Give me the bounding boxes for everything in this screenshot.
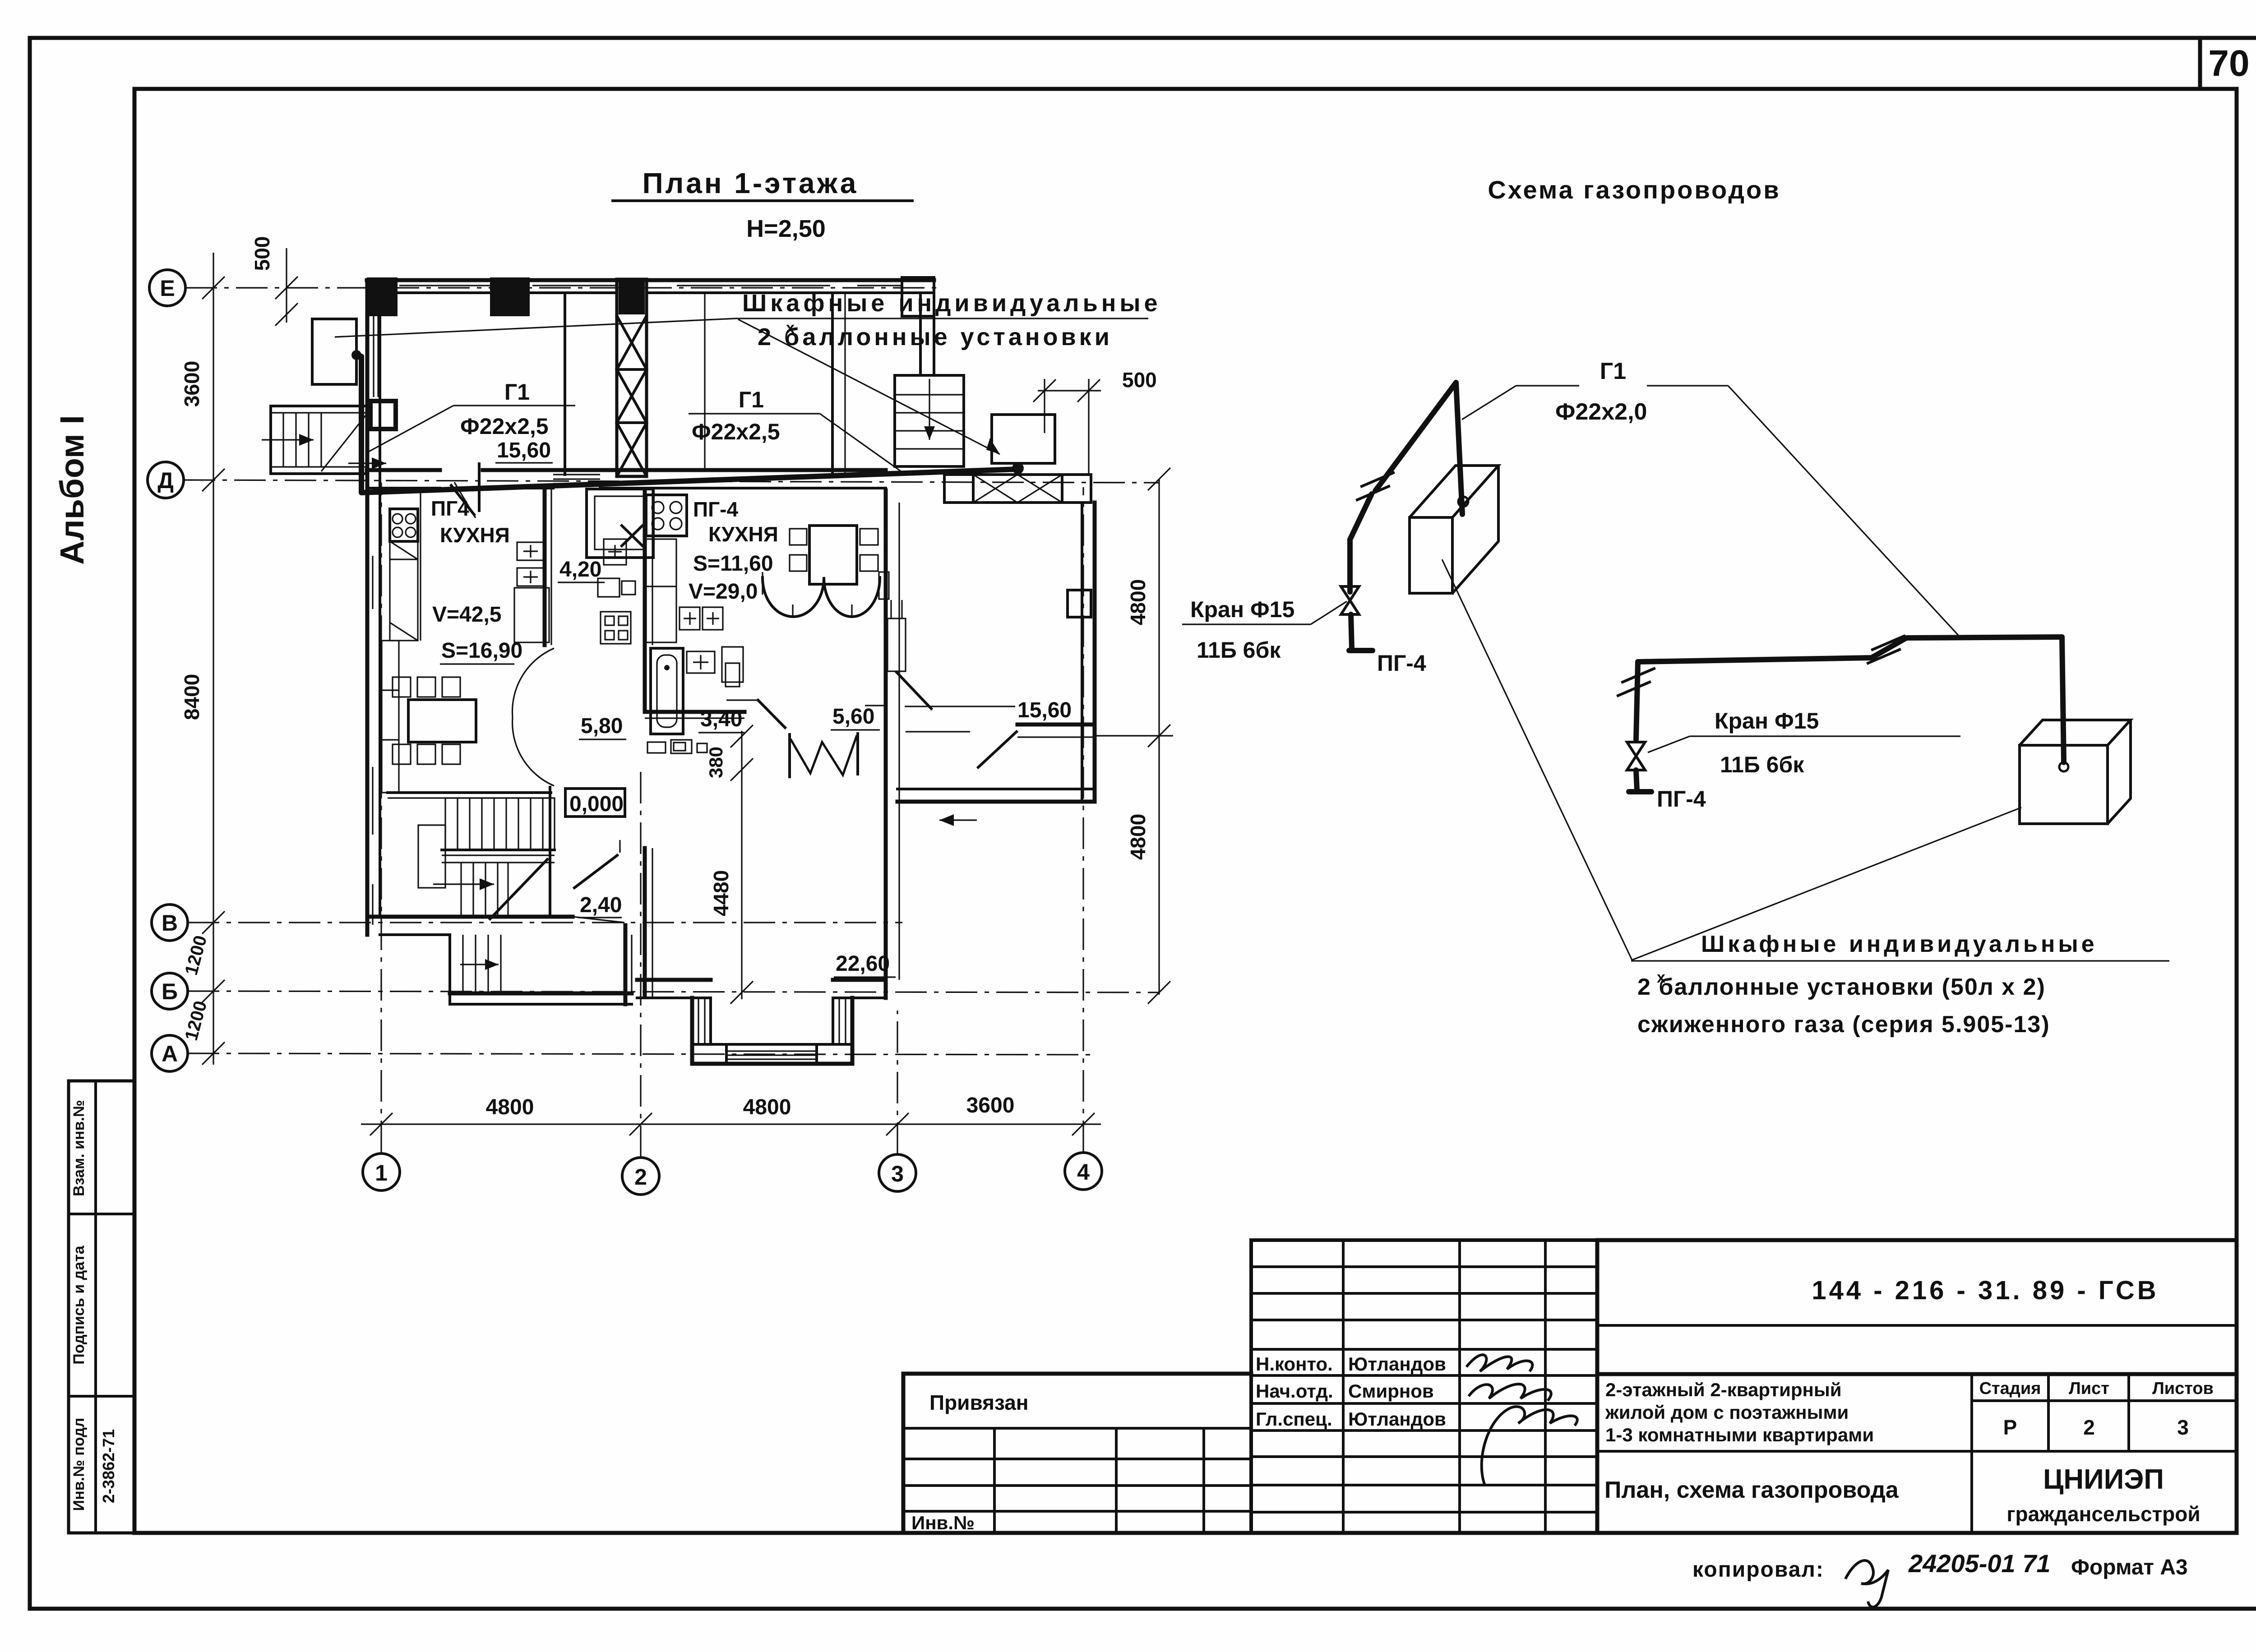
svg-text:граждансельстрой: граждансельстрой	[2006, 1502, 2200, 1526]
svg-text:70: 70	[2208, 43, 2249, 84]
svg-text:Ф22х2,5: Ф22х2,5	[460, 414, 549, 439]
svg-text:Ф22х2,0: Ф22х2,0	[1555, 399, 1647, 425]
svg-text:380: 380	[705, 747, 726, 778]
svg-text:Формат А3: Формат А3	[2071, 1555, 2188, 1579]
stove box upper (iso)	[1410, 466, 1498, 593]
right wall of main block	[886, 490, 906, 998]
svg-text:Шкафные индивидуальные: Шкафные индивидуальные	[1701, 931, 2098, 957]
svg-text:План, схема газопровода: План, схема газопровода	[1604, 1477, 1899, 1503]
svg-text:2: 2	[634, 1164, 647, 1190]
label 22,60	[834, 952, 896, 977]
dim 4480 rotated	[709, 870, 733, 916]
upper rooms interior walls	[454, 280, 934, 518]
svg-text:2 баллонные установки (50л х: 2 баллонные установки (50л х 2)	[1637, 974, 2046, 1000]
leader lines to note	[1442, 559, 2021, 960]
entrance porch left with steps	[262, 406, 368, 474]
svg-text:Стадия: Стадия	[1979, 1379, 2041, 1398]
label 5,80	[579, 714, 626, 739]
pilaster top-left	[367, 277, 398, 316]
album label	[53, 415, 91, 565]
label 3,40	[698, 707, 744, 733]
door swing kitchen1 (double arc)	[512, 648, 554, 786]
left dimension line	[202, 253, 225, 1065]
svg-text:3600: 3600	[180, 361, 203, 407]
stove box lower (iso)	[2020, 720, 2131, 824]
bottom dimension line	[361, 1113, 1101, 1135]
svg-text:ПГ-4: ПГ-4	[1377, 651, 1426, 676]
entry door at kitchen1	[451, 464, 479, 515]
dim 4800 right lower	[1126, 814, 1150, 860]
svg-text:Ютландов: Ютландов	[1348, 1408, 1446, 1430]
left attach table	[903, 1374, 1251, 1533]
svg-text:3: 3	[2177, 1416, 2189, 1439]
interior wall hall/living	[645, 490, 652, 997]
svg-text:Взам. инв.№: Взам. инв.№	[70, 1100, 88, 1196]
axis circle 2	[622, 1158, 659, 1195]
bottom-left wall	[367, 917, 624, 935]
label G1 no.1	[348, 379, 575, 469]
dim 4800 bottom mid	[743, 1095, 791, 1119]
svg-text:Инв.№: Инв.№	[911, 1512, 975, 1533]
svg-text:2-этажный 2-квартирный: 2-этажный 2-квартирный	[1605, 1379, 1842, 1400]
bay window	[692, 998, 852, 1064]
svg-text:В: В	[162, 910, 178, 936]
veranda right wall	[1068, 503, 1095, 802]
svg-text:А: А	[162, 1041, 178, 1066]
svg-text:3: 3	[891, 1161, 904, 1186]
label PG-4 upper	[1377, 651, 1426, 676]
gas pipe G1 riser and run	[351, 350, 1024, 493]
dim 3600 left	[180, 361, 203, 407]
main stamp box	[1597, 1240, 2237, 1533]
svg-text:Ютландов: Ютландов	[1348, 1353, 1446, 1375]
project name	[1605, 1379, 1874, 1445]
main stairs	[388, 793, 555, 919]
svg-text:Гл.спец.: Гл.спец.	[1256, 1408, 1332, 1430]
svg-text:V=29,0: V=29,0	[689, 580, 758, 604]
axis circle 4	[1065, 1153, 1102, 1190]
svg-text:11Б 6бк: 11Б 6бк	[1197, 637, 1281, 663]
valve upper (kran)	[1341, 586, 1373, 651]
dim 380 rotated	[705, 747, 726, 778]
label 15,60 under G1	[495, 438, 553, 463]
axis circle A	[152, 1035, 188, 1071]
svg-text:Шкафные индивидуальные: Шкафные индивидуальные	[742, 290, 1161, 317]
svg-text:КУХНЯ: КУХНЯ	[440, 523, 510, 547]
svg-text:4800: 4800	[486, 1095, 534, 1119]
signature squiggles	[1466, 1355, 1577, 1484]
signature grid	[1251, 1240, 1597, 1533]
small boxes pair	[598, 578, 635, 597]
ventilation shaft with X bracing	[617, 279, 647, 476]
pilaster top-mid	[490, 277, 530, 316]
svg-text:1: 1	[375, 1160, 388, 1186]
pipe break symbol mid	[1868, 636, 1904, 663]
dim 1200 left lower	[181, 999, 211, 1043]
dining table kitchen1	[393, 677, 476, 764]
right dimension line	[1096, 468, 1173, 1004]
svg-text:План 1-этажа: План 1-этажа	[643, 167, 859, 199]
kitchen1 window strip	[382, 641, 399, 793]
svg-text:Н=2,50: Н=2,50	[746, 215, 826, 242]
svg-text:4800: 4800	[743, 1095, 791, 1119]
axis line A	[188, 1053, 1096, 1055]
svg-text:х: х	[786, 319, 795, 337]
label S=16,90	[440, 639, 522, 664]
label kran lower	[1648, 708, 1960, 777]
svg-text:х: х	[1657, 969, 1665, 986]
svg-text:4: 4	[1077, 1159, 1090, 1185]
dim 8400 left	[180, 674, 203, 720]
svg-text:2: 2	[2083, 1416, 2095, 1439]
svg-text:Н.конто.: Н.конто.	[1256, 1353, 1333, 1375]
svg-text:ПГ-4: ПГ-4	[693, 498, 738, 521]
svg-text:5,80: 5,80	[581, 714, 623, 738]
svg-text:Схема газопроводов: Схема газопроводов	[1488, 175, 1780, 204]
svg-text:Б: Б	[162, 979, 178, 1004]
signature names	[1256, 1353, 1446, 1430]
svg-text:Кран Ф15: Кран Ф15	[1715, 708, 1819, 734]
label kran upper	[1182, 597, 1347, 663]
svg-text:Г1: Г1	[504, 379, 530, 405]
veranda entry arrow	[939, 814, 977, 826]
svg-text:сжиженного газа (серия 5.905-1: сжиженного газа (серия 5.905-13)	[1637, 1011, 2050, 1038]
axis column 2	[640, 767, 641, 1157]
svg-text:копировал:: копировал:	[1692, 1558, 1824, 1582]
dim 1200 left upper	[181, 933, 211, 977]
small cabinet plus	[604, 539, 626, 565]
svg-text:11Б 6бк: 11Б 6бк	[1720, 752, 1804, 777]
hall cabinets	[514, 542, 549, 642]
dim 3600 bottom	[966, 1094, 1015, 1117]
svg-text:ПГ-4: ПГ-4	[1657, 786, 1706, 812]
svg-text:Е: Е	[160, 276, 175, 301]
svg-text:15,60: 15,60	[497, 438, 551, 462]
axis line V	[188, 922, 902, 923]
label ПГ4 КУХНЯ 1	[431, 497, 510, 547]
dim 4800 bottom left	[486, 1095, 534, 1119]
axis column 1	[380, 483, 382, 1152]
svg-text:Привязан: Привязан	[929, 1391, 1029, 1414]
kitchen2 stove	[646, 495, 687, 536]
bathtub	[651, 648, 683, 734]
svg-text:Г1: Г1	[1600, 358, 1626, 384]
left sidebar table	[69, 1081, 134, 1533]
SCHEME TITLE	[1488, 175, 1780, 204]
veranda door leaf	[978, 732, 1017, 767]
label G1 no.2	[689, 387, 902, 472]
dining table kitchen2	[790, 526, 878, 584]
sheet name	[1604, 1477, 1899, 1503]
riser pipe upper unit	[1350, 383, 1462, 592]
svg-text:1-3 комнатными квартирами: 1-3 комнатными квартирами	[1605, 1424, 1874, 1445]
veranda railing X top	[944, 475, 1091, 503]
double door arcs living	[763, 572, 889, 617]
svg-text:4,20: 4,20	[559, 558, 601, 581]
dim 4800 right upper	[1126, 579, 1150, 625]
scheme note text	[1631, 931, 2169, 1038]
gas riser pilaster	[370, 401, 396, 429]
kitchen2 counter strip	[646, 539, 676, 642]
kitchen1 counter	[390, 488, 421, 641]
label ПГ-4 КУХНЯ 2	[693, 498, 778, 546]
tambour annex	[450, 925, 632, 1004]
organization	[2006, 1464, 2200, 1526]
bottom wall B	[637, 980, 886, 998]
svg-text:Кран Ф15: Кран Ф15	[1190, 597, 1294, 622]
kitchen1 stove PG4	[390, 509, 418, 541]
label PG-4 lower	[1657, 786, 1706, 812]
axis line D	[184, 480, 1160, 483]
kopiroval line	[1692, 1549, 2188, 1607]
axis circle B	[152, 973, 188, 1009]
sink row bottom	[647, 740, 707, 753]
axis column 4	[1082, 487, 1084, 1152]
svg-text:Альбом I: Альбом I	[53, 415, 91, 565]
svg-text:Инв.№ подл: Инв.№ подл	[70, 1418, 88, 1511]
svg-text:500: 500	[1122, 368, 1157, 392]
svg-text:22,60: 22,60	[836, 952, 890, 976]
axis line E	[185, 287, 941, 288]
door 2,40 leaf	[574, 840, 620, 888]
svg-text:2,40: 2,40	[580, 893, 622, 917]
label 4,20	[558, 558, 605, 582]
doc number	[1812, 1276, 2159, 1305]
svg-text:2-3862-71: 2-3862-71	[99, 1429, 118, 1503]
stove panel 4sq	[601, 612, 631, 644]
wc cabinet	[722, 647, 743, 687]
svg-text:24205-01 71: 24205-01 71	[1908, 1549, 2051, 1578]
pipe break symbol left lower	[1618, 669, 1654, 696]
balcony box top-left	[312, 319, 356, 384]
stage headers	[1979, 1379, 2214, 1439]
axis circle V	[152, 904, 188, 941]
label S=11,60	[693, 552, 773, 576]
svg-text:15,60: 15,60	[1017, 698, 1072, 722]
label V=29,0	[689, 580, 758, 604]
cabinet note text	[335, 290, 1161, 454]
gas cabinet box top-right	[992, 415, 1055, 463]
svg-text:ПГ4: ПГ4	[431, 497, 469, 520]
washbasin plus	[687, 651, 715, 673]
svg-text:V=42,5: V=42,5	[432, 603, 501, 627]
label V=42,5	[432, 603, 501, 627]
left exterior wall	[367, 280, 380, 935]
svg-text:ЦНИИЭП: ЦНИИЭП	[2043, 1464, 2164, 1495]
dim 500 top-left	[250, 236, 298, 326]
lower descent and valve	[1627, 662, 1651, 792]
svg-text:S=11,60: S=11,60	[693, 552, 773, 576]
veranda bottom wall	[897, 789, 1095, 802]
interior dim line 4480	[730, 725, 753, 1004]
axis circle 1	[363, 1154, 400, 1191]
pilaster top-right	[902, 277, 934, 316]
axis line B	[188, 991, 1160, 992]
svg-text:4480: 4480	[709, 870, 733, 916]
dim 500 top-right	[1033, 368, 1157, 474]
top exterior wall E	[367, 280, 934, 293]
axis circle E	[149, 270, 185, 306]
svg-text:0,000: 0,000	[569, 792, 624, 816]
wall on axis D	[367, 470, 886, 488]
PLAN TITLE	[613, 167, 912, 242]
label 0,000 box	[565, 789, 625, 817]
wall hall/room horizontal	[645, 712, 744, 718]
svg-text:144 - 216 - 31. 89 - ГСВ: 144 - 216 - 31. 89 - ГСВ	[1812, 1276, 2159, 1305]
svg-text:4800: 4800	[1126, 579, 1150, 625]
folding door W	[726, 672, 931, 777]
svg-text:Р: Р	[2003, 1416, 2017, 1439]
external stair top-right	[895, 375, 964, 466]
svg-text:3,40: 3,40	[700, 707, 742, 731]
label 5,60	[831, 705, 880, 730]
svg-text:КУХНЯ: КУХНЯ	[708, 522, 778, 546]
pipe break symbol upper	[1357, 473, 1393, 500]
svg-text:4800: 4800	[1126, 814, 1150, 860]
svg-text:Нач.отд.: Нач.отд.	[1256, 1380, 1333, 1402]
svg-text:Листов: Листов	[2152, 1379, 2214, 1398]
svg-text:500: 500	[250, 236, 274, 271]
veranda mid wall	[905, 706, 1095, 737]
svg-text:Лист: Лист	[2069, 1379, 2109, 1398]
svg-text:жилой дом с поэтажными: жилой дом с поэтажными	[1605, 1402, 1849, 1423]
axis circle 3	[879, 1154, 916, 1191]
kitchen2 plus boxes	[680, 607, 723, 630]
svg-text:S=16,90: S=16,90	[441, 639, 522, 663]
axis column 3	[897, 1011, 898, 1154]
porch steps bottom	[460, 935, 501, 993]
svg-text:8400: 8400	[180, 674, 203, 720]
lower unit pipe run	[1638, 637, 2064, 762]
sink unit with X	[587, 489, 653, 558]
axis circle D	[148, 462, 184, 498]
svg-text:Подпись и дата: Подпись и дата	[70, 1245, 88, 1365]
label 2,40	[578, 893, 622, 918]
label 15,60 right	[1016, 698, 1076, 724]
svg-text:3600: 3600	[966, 1094, 1015, 1117]
interior wall kitchen1/hall	[545, 488, 551, 917]
svg-text:Смирнов: Смирнов	[1348, 1380, 1434, 1402]
page number box 70	[2200, 38, 2250, 89]
svg-text:Д: Д	[157, 468, 174, 493]
svg-text:5,60: 5,60	[832, 705, 874, 729]
label G1 scheme	[1462, 358, 1958, 635]
svg-text:Г1: Г1	[739, 387, 764, 412]
